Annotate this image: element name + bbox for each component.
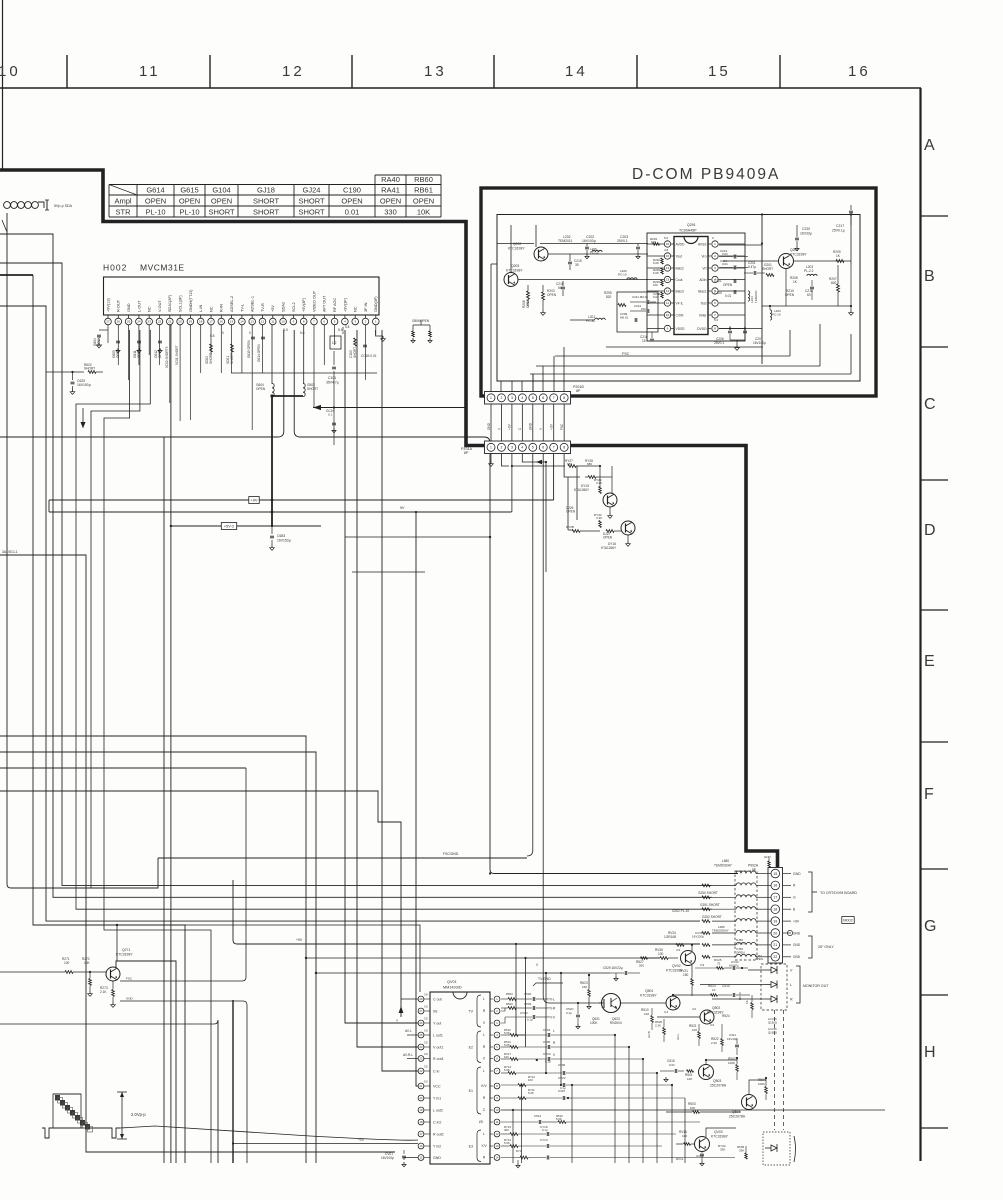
svg-text:R out2: R out2 [433, 1132, 444, 1136]
wire P201A pin8 branch [564, 454, 580, 477]
svg-text:0.1μ: 0.1μ [566, 1011, 572, 1015]
svg-text:OPEN: OPEN [211, 197, 232, 206]
capacitor G604 OPEN [93, 330, 108, 348]
svg-text:OPEN: OPEN [97, 336, 101, 346]
wire Q504 collector [749, 1080, 766, 1094]
svg-text:0.1: 0.1 [328, 413, 333, 417]
vertical junction x572 [571, 1084, 573, 1163]
wire rows to transistors [615, 1035, 665, 1047]
resistor R510 100 [641, 1008, 669, 1030]
coil G604 OPEN vertical [256, 325, 274, 397]
svg-text:39: 39 [575, 263, 579, 267]
svg-text:G: G [924, 918, 936, 935]
svg-text:11: 11 [666, 301, 669, 305]
svg-text:16V47μ: 16V47μ [729, 964, 739, 968]
row RY11 5.6K C507 [501, 1088, 685, 1163]
ground DY16 [626, 535, 631, 546]
svg-text:SHORT: SHORT [230, 353, 234, 364]
wire pin9 curve right [294, 330, 738, 874]
svg-text:OPEN: OPEN [256, 387, 266, 391]
wire vertical drop d [416, 512, 418, 1086]
svg-text:25C2078A: 25C2078A [710, 1084, 727, 1088]
svg-text:3.9: 3.9 [700, 963, 705, 967]
svg-text:TV-GND: TV-GND [538, 977, 551, 981]
bus wires D-COM to P201B [491, 264, 851, 392]
wire P201A pin6 branch [543, 454, 549, 1003]
svg-text:16: 16 [220, 320, 224, 324]
IC H002 body [104, 277, 380, 315]
svg-text:C out: C out [433, 997, 442, 1001]
svg-text:MM1493ID: MM1493ID [443, 986, 462, 990]
svg-text:7: 7 [553, 396, 555, 400]
resistor R602 SHORT [84, 363, 103, 373]
svg-text:C190: C190 [343, 186, 361, 195]
wire Q501 emitter down [672, 1010, 674, 1017]
svg-text:RN2004: RN2004 [610, 1021, 622, 1025]
svg-text:SHORT: SHORT [307, 387, 318, 391]
svg-text:C101: C101 [328, 376, 336, 380]
svg-text:5Vp-p SDA: 5Vp-p SDA [54, 204, 73, 208]
svg-text:C: C [924, 396, 936, 413]
resistor R295 820 with box [604, 291, 658, 332]
svg-text:PL-2.2: PL-2.2 [804, 269, 814, 273]
svg-text:Yout: Yout [676, 254, 683, 258]
capacitor G615 OPEN [247, 337, 255, 358]
ruler tick marks [67, 55, 780, 88]
svg-text:7: 7 [553, 446, 555, 450]
svg-text:16V33μ: 16V33μ [800, 232, 812, 236]
svg-text:100K: 100K [758, 1082, 765, 1086]
resistor R273 2.1K [100, 981, 115, 1007]
transistor pair Q621 Q623 RN2004 [590, 994, 622, 1026]
row C pin10 long wire [501, 1109, 885, 1111]
dashed box bottom jack [763, 1132, 796, 1165]
IC Q291 left pin labels [664, 236, 685, 331]
svg-text:16V150μ: 16V150μ [277, 539, 291, 543]
bracket MONITOR OUT [796, 966, 829, 1003]
svg-text:C in: C in [433, 1069, 439, 1073]
capacitors C213 C214 0.01 [719, 249, 748, 270]
wire cross horizontal 572 [352, 571, 425, 573]
svg-text:GJ18: GJ18 [257, 186, 275, 195]
svg-text:5.6K: 5.6K [504, 1043, 510, 1047]
row components TV-R [501, 1002, 556, 1011]
coil input symbol 5Vp-p SDA [4, 200, 73, 210]
svg-text:460: 460 [504, 1128, 509, 1132]
svg-text:RC16: RC16 [738, 992, 742, 1000]
capacitor C204 0.01 [714, 290, 736, 298]
wire +9V rail bottom [233, 880, 700, 944]
svg-text:AV-L: AV-L [405, 1029, 412, 1033]
coil G502 SHORT vertical [303, 325, 318, 397]
wires right section D-COM [719, 213, 853, 364]
capacitor C510 [718, 984, 750, 997]
ground R623 [587, 974, 591, 1009]
svg-text:3.8: 3.8 [424, 1028, 428, 1032]
svg-text:18: 18 [773, 907, 777, 911]
svg-text:10K: 10K [84, 961, 91, 965]
svg-text:17: 17 [209, 320, 213, 324]
IC H002 pin row [105, 315, 379, 325]
svg-text:C220: C220 [802, 227, 810, 231]
svg-text:150: 150 [683, 973, 689, 977]
svg-text:3: 3 [511, 396, 513, 400]
svg-text:L: L [483, 1033, 485, 1037]
transistor Q503 25C2078A [699, 1065, 727, 1088]
wire rails inside D-COM [497, 225, 860, 280]
wire y373 cross [231, 372, 377, 374]
wire feed RV26 [305, 957, 660, 959]
svg-text:OPEN: OPEN [145, 197, 166, 206]
svg-text:8P: 8P [464, 451, 469, 455]
svg-text:KTC3198Y: KTC3198Y [506, 269, 523, 273]
resistor R522 2.2K [711, 1024, 723, 1052]
IC H002 pin name labels [106, 289, 378, 312]
wire bus left 9 [0, 791, 401, 1017]
resistor SD02 SHORT [205, 344, 213, 364]
svg-text:100: 100 [64, 961, 70, 965]
svg-text:9C02 SHORT5: 9C02 SHORT5 [165, 346, 169, 368]
coil L205 PC-10 right [769, 305, 781, 320]
svg-text:16V10μ: 16V10μ [727, 1037, 738, 1041]
svg-text:RF AGC: RF AGC [333, 297, 337, 312]
svg-text:15: 15 [773, 872, 777, 876]
svg-text:10K: 10K [690, 1106, 695, 1110]
svg-text:100: 100 [504, 1055, 509, 1059]
wire Q271 FSC line [120, 768, 246, 981]
row RY15 CY19 [501, 1125, 676, 1136]
svg-text:CC1B 0.01: CC1B 0.01 [361, 354, 377, 358]
capacitor C206 25V0.1 [714, 326, 732, 345]
diode DJ27 OPEN [603, 532, 613, 540]
row RY12 100 CV22 [501, 1075, 672, 1163]
capacitor G611 OPEN [133, 341, 141, 358]
svg-text:C512: C512 [534, 1114, 542, 1118]
svg-text:C217: C217 [836, 224, 844, 228]
svg-text:23: 23 [148, 320, 152, 324]
svg-text:KTA1266Y: KTA1266Y [601, 546, 617, 550]
capacitor C511 16V10u [727, 1033, 739, 1055]
svg-text:A: A [924, 137, 935, 154]
svg-text:11: 11 [139, 63, 161, 80]
svg-text:1: 1 [490, 396, 492, 400]
svg-text:0.47μ: 0.47μ [748, 265, 756, 269]
svg-text:3.8: 3.8 [424, 1052, 428, 1056]
capacitor CC1B 0.01 [361, 345, 377, 358]
svg-text:GND: GND [126, 997, 134, 1001]
svg-text:21: 21 [773, 943, 777, 947]
svg-text:C505: C505 [543, 1040, 551, 1044]
wire bus left 2 [0, 263, 712, 885]
svg-text:FSC: FSC [622, 352, 630, 356]
svg-text:Q203: Q203 [511, 264, 519, 268]
svg-text:KTC3198Y: KTC3198Y [640, 994, 657, 998]
svg-text:C504: C504 [543, 1028, 551, 1032]
svg-text:Q202: Q202 [513, 242, 521, 246]
capacitor C529 16V22u [603, 966, 640, 981]
svg-text:Q291: Q291 [687, 223, 696, 227]
resistor RV25 75 [695, 958, 724, 969]
wire staircase to IC [120, 1126, 418, 1140]
resistor RV21 150 [680, 965, 693, 996]
resistor RY28 680 [585, 459, 612, 478]
svg-text:100: 100 [528, 1078, 533, 1082]
svg-text:560: 560 [639, 964, 644, 968]
svg-text:L: L [483, 1132, 485, 1136]
wire bus left 3 (2px) [0, 275, 185, 1163]
svg-text:KTC3198Y: KTC3198Y [790, 253, 807, 257]
svg-text:E: E [924, 653, 935, 670]
svg-text:L: L [553, 1029, 555, 1033]
bold wire G604-G502 junction to +5V-2 [270, 394, 303, 526]
coil rows into P902A [712, 871, 771, 957]
svg-text:C506: C506 [558, 1063, 566, 1067]
wire 3A1/SCL1 [0, 550, 395, 1152]
resistor R203 OPEN [541, 285, 557, 315]
svg-text:OPEN: OPEN [736, 951, 745, 955]
svg-text:KTC319BY: KTC319BY [711, 1135, 729, 1139]
resistor R209 1K [833, 250, 844, 263]
resistor RZ10 OPEN [785, 289, 795, 297]
svg-text:OPEN: OPEN [603, 536, 613, 540]
svg-text:AVSS: AVSS [698, 242, 707, 246]
right border tick marks [920, 216, 948, 1128]
svg-text:16: 16 [773, 884, 777, 888]
ruler column numbers [0, 63, 871, 80]
capacitor C207 16V100u [743, 326, 766, 345]
svg-text:5.8: 5.8 [345, 325, 350, 329]
transistor QV03 KTC3198Y [695, 1130, 729, 1152]
svg-text:R503: R503 [506, 992, 513, 996]
svg-text:Y in1: Y in1 [433, 1096, 441, 1100]
svg-text:MONITOR OUT: MONITOR OUT [803, 984, 829, 988]
svg-text:0.01: 0.01 [722, 252, 728, 256]
svg-text:OPEN: OPEN [341, 197, 362, 206]
row RY13b 5.6K CY13 [501, 1138, 662, 1148]
wire pin25 corner [104, 330, 211, 1163]
wires to monitor jacks [700, 970, 765, 999]
resistor RY20 33K [718, 1144, 726, 1152]
svg-text:KTC3198Y: KTC3198Y [508, 247, 525, 251]
wire Q501 collector to R523 [673, 995, 684, 996]
svg-text:OPEN: OPEN [723, 283, 733, 287]
svg-text:13: 13 [251, 320, 255, 324]
svg-text:VDSS: VDSS [676, 327, 686, 331]
svg-text:OPEN: OPEN [420, 319, 430, 323]
svg-text:820: 820 [606, 295, 612, 299]
capacitor C217 25V0.1u [832, 205, 853, 233]
svg-text:25: 25 [127, 320, 131, 324]
wire QV02 collector up [684, 945, 712, 952]
resistor R272 10K [82, 957, 92, 996]
svg-text:Ampl: Ampl [114, 197, 131, 206]
wire R502 top to monitor R [736, 1055, 738, 1060]
wire bus left 8 [0, 767, 246, 769]
transistor QV02 KTC3198Y [666, 948, 705, 973]
node values 5.8 / 0 above pins [210, 325, 350, 338]
svg-text:RB61: RB61 [414, 186, 433, 195]
svg-text:Q503: Q503 [713, 1079, 721, 1083]
border ruler top line [0, 87, 921, 89]
svg-text:+9V: +9V [793, 919, 800, 923]
svg-text:G202 PL-10: G202 PL-10 [672, 909, 689, 913]
coil L203 PL-2.2 [804, 265, 817, 276]
capacitor CV34 16V47u [724, 960, 748, 970]
svg-text:V-OUT: V-OUT [158, 300, 162, 312]
svg-text:+9V: +9V [296, 938, 303, 942]
svg-text:TO CRT/D/VM BOARD: TO CRT/D/VM BOARD [820, 891, 857, 895]
svg-text:9S: 9S [433, 1009, 438, 1013]
svg-text:1: 1 [490, 446, 492, 450]
resistor R206 OPEN [522, 285, 530, 308]
svg-text:SHORT: SHORT [209, 353, 213, 364]
svg-text:PC-10: PC-10 [772, 313, 781, 317]
svg-text:0.01: 0.01 [725, 294, 731, 298]
svg-text:+9V: +9V [508, 423, 512, 430]
IC QV01 body [430, 992, 490, 1164]
resistor R504 100K [758, 1078, 767, 1100]
wire Q502 base left [657, 1016, 700, 1018]
svg-text:16V100μ: 16V100μ [582, 239, 596, 243]
svg-text:GND: GND [764, 855, 772, 859]
wire y1024 curve [0, 1020, 218, 1024]
svg-text:13: 13 [666, 278, 670, 282]
svg-text:10: 10 [666, 313, 670, 317]
svg-text:+9V: +9V [250, 497, 258, 502]
svg-text:5.6K: 5.6K [504, 1141, 510, 1145]
svg-text:SHORT: SHORT [208, 208, 235, 217]
svg-text:16V150μ: 16V150μ [77, 383, 91, 387]
svg-text:B: B [924, 268, 935, 285]
svg-text:Q502: Q502 [712, 1006, 720, 1010]
wire drop to row RY13 [545, 972, 547, 1073]
labels LCC35 LCC36 [768, 1017, 777, 1035]
svg-text:GND: GND [793, 943, 801, 947]
svg-text:+9V: +9V [550, 423, 554, 430]
svg-text:Cout: Cout [676, 278, 683, 282]
svg-text:10: 10 [281, 320, 285, 324]
svg-text:0.01: 0.01 [345, 208, 360, 217]
capacitor G605 OPEN [112, 341, 120, 358]
svg-text:Killer: Killer [699, 313, 707, 317]
ground DY15 [608, 507, 613, 518]
resistor R503 10K [666, 1102, 741, 1113]
svg-text:TV-R: TV-R [548, 1007, 556, 1011]
svg-text:R out1: R out1 [433, 1057, 444, 1061]
svg-text:G614: G614 [146, 186, 164, 195]
wire down x233 with junction [232, 1000, 418, 1163]
coil L201 PC-30 [570, 315, 605, 323]
svg-text:L: L [483, 997, 485, 1001]
svg-text:27: 27 [106, 320, 110, 324]
svg-text:D-COM PB9409A: D-COM PB9409A [632, 166, 780, 183]
svg-text:4: 4 [521, 396, 523, 400]
svg-text:3.8: 3.8 [424, 1040, 428, 1044]
svg-text:8P: 8P [576, 389, 581, 393]
svg-text:17: 17 [773, 896, 777, 900]
transistor Q504 25C2078A [729, 1095, 757, 1119]
svg-text:OPEN: OPEN [566, 510, 576, 514]
svg-text:G806: G806 [412, 319, 420, 323]
svg-text:C211 M0.01: C211 M0.01 [632, 295, 648, 299]
staircase waveform symbol 2.0Vp-p [42, 1090, 146, 1139]
resistor stack R291-R296 left of IC [650, 237, 663, 299]
svg-text:TEM2011: TEM2011 [558, 239, 573, 243]
svg-text:I/2I: I/2I [479, 1120, 484, 1124]
wire cross horizontal 537 [345, 536, 491, 538]
svg-text:6: 6 [542, 446, 544, 450]
wire +5V-2 rail [170, 523, 321, 530]
wire QV02 row to RV25 [695, 967, 718, 969]
svg-text:ADSEL-2: ADSEL-2 [230, 296, 234, 312]
capacitor C216 15 [640, 332, 654, 343]
svg-text:9.0: 9.0 [424, 1079, 428, 1083]
wire Q503 Q504 net [706, 1072, 729, 1095]
capacitor G614 OPEN [257, 337, 265, 362]
wire Q271 GND line [120, 997, 247, 1164]
svg-text:GNDH(TT-D): GNDH(TT-D) [189, 289, 193, 312]
capacitor C209 M0.01 [620, 312, 637, 322]
svg-text:GND: GND [433, 1156, 441, 1160]
resistor RY31 [566, 525, 621, 532]
svg-text:14: 14 [565, 63, 588, 80]
svg-text:100: 100 [641, 307, 646, 311]
svg-text:OPEN: OPEN [736, 942, 745, 946]
svg-text:680: 680 [568, 528, 573, 532]
inductor L202 TEM2011 / cap C202 / cap C203 row [540, 235, 648, 259]
wire bus left 4 [0, 306, 700, 921]
capacitor CV01 16V100u at GND pin [381, 1150, 418, 1167]
svg-text:25V0.1: 25V0.1 [714, 341, 724, 345]
svg-text:3: 3 [511, 446, 513, 450]
svg-text:E2: E2 [469, 1045, 473, 1049]
svg-text:18: 18 [199, 320, 203, 324]
resistor 9C01 SHORT [175, 345, 179, 365]
resistor RY29 3.3K [594, 465, 602, 494]
resistor R271 100 [0, 957, 106, 973]
svg-text:100K: 100K [728, 1061, 735, 1065]
svg-text:19: 19 [189, 320, 193, 324]
wire y925 branch [185, 925, 420, 992]
svg-text:15: 15 [642, 339, 646, 343]
coil L204 TEM2011 vertical [748, 290, 758, 303]
resistor R423 150 [580, 975, 590, 1004]
ground below P201A pin1 [489, 453, 494, 466]
svg-text:CV03: CV03 [520, 1011, 528, 1015]
svg-text:OPEN: OPEN [413, 197, 434, 206]
svg-text:26″ ONLY: 26″ ONLY [818, 945, 834, 949]
svg-text:20: 20 [178, 320, 182, 324]
svg-text:H: H [924, 1044, 936, 1061]
capacitor C221 OPEN [714, 279, 736, 287]
vertical junction x513 [512, 1109, 514, 1163]
svg-text:PL-10: PL-10 [179, 208, 199, 217]
resistor R208 1K [790, 276, 798, 284]
svg-text:GJ24: GJ24 [303, 186, 321, 195]
svg-text:11: 11 [271, 320, 274, 324]
svg-text:330: 330 [384, 208, 397, 217]
svg-text:5.0: 5.0 [664, 236, 669, 240]
svg-text:FSC: FSC [126, 977, 133, 981]
svg-text:OPEN: OPEN [380, 197, 401, 206]
resistor SD01 SHORT [226, 344, 234, 364]
svg-text:2.2K: 2.2K [711, 1041, 717, 1045]
boxed label M002 [842, 917, 854, 924]
wire Q271 collector up [116, 961, 176, 1163]
coil L206 PC-10 [618, 269, 637, 280]
resistor R521 100 [689, 1023, 715, 1046]
svg-text:15: 15 [708, 63, 731, 80]
